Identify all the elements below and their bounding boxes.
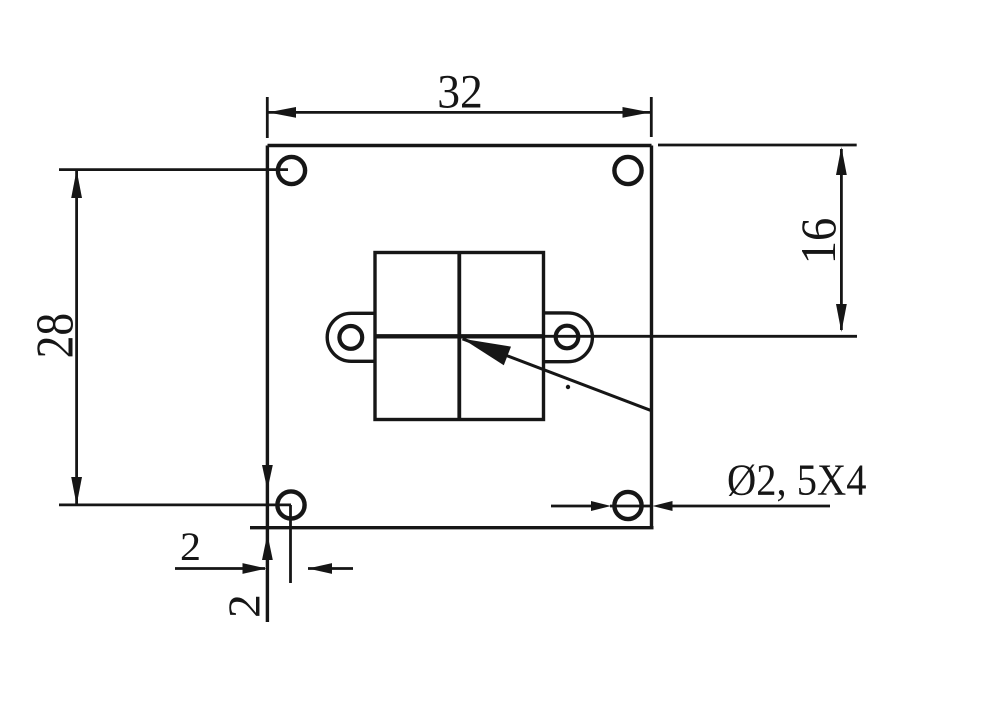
dim 16: dimension line bbox=[840, 149, 843, 330]
svg-text:16: 16 bbox=[791, 218, 846, 264]
hole bottom-right bbox=[614, 492, 641, 519]
leader arrowhead at component center bbox=[463, 339, 512, 366]
left ear hole bbox=[339, 326, 362, 349]
hole bottom-left bbox=[277, 491, 304, 518]
svg-text:28: 28 bbox=[25, 313, 84, 359]
hole top-right bbox=[614, 157, 641, 184]
plate top edge bbox=[268, 144, 652, 147]
arrowhead 28 bottom bbox=[71, 477, 82, 505]
arrowhead hole-callout (points right at hole) bbox=[591, 501, 611, 511]
component square outline bbox=[375, 253, 544, 420]
arrowhead 2v down (points down, above bottom hole axis) bbox=[262, 465, 273, 490]
dim 2 horizontal: right shaft bbox=[308, 567, 353, 570]
dim 32: dimension line bbox=[268, 111, 651, 114]
dim 28: bottom extension line bbox=[59, 503, 291, 506]
plate right edge bbox=[650, 146, 653, 528]
svg-text:2: 2 bbox=[180, 524, 201, 569]
arrowhead 32 right bbox=[623, 107, 651, 118]
dim 32: right extension line bbox=[650, 97, 653, 137]
arrowhead 32 left bbox=[268, 107, 296, 118]
left ear tab outline bbox=[327, 313, 375, 361]
svg-text:32: 32 bbox=[437, 65, 483, 118]
leader line to component center bbox=[463, 339, 652, 411]
hole callout: line through hole bbox=[610, 505, 652, 508]
right ear tab outline bbox=[544, 313, 593, 362]
dim 2 horizontal: left shaft bbox=[175, 567, 265, 570]
svg-text:2: 2 bbox=[219, 594, 270, 618]
arrowhead 2h right (points left) bbox=[308, 563, 332, 574]
hole callout: left shaft bbox=[551, 505, 592, 508]
dim 16: top extension line bbox=[658, 144, 857, 147]
dim 28: dimension line bbox=[75, 171, 78, 505]
plate left edge (extends down as dimension line) bbox=[266, 146, 269, 623]
dim 16: bottom extension line (axis through right ear) bbox=[544, 335, 858, 338]
arrowhead 2h left (points right) bbox=[243, 563, 267, 574]
hole callout: right shaft bbox=[672, 505, 830, 508]
hole top-left bbox=[278, 157, 305, 184]
arrowhead 16 bottom bbox=[836, 304, 847, 332]
component vertical center line bbox=[457, 253, 461, 420]
arrowhead hole-callout (points left at plate edge) bbox=[653, 501, 673, 511]
dim 32: left extension line bbox=[266, 97, 269, 138]
stray dot on leader bbox=[566, 385, 570, 389]
right ear hole bbox=[556, 326, 579, 349]
svg-text:Ø2, 5X4: Ø2, 5X4 bbox=[727, 456, 866, 505]
dim 2 horizontal: hole-center extension line bbox=[289, 505, 292, 583]
arrowhead 28 top bbox=[71, 170, 82, 198]
arrowhead 16 top bbox=[836, 147, 847, 175]
arrowhead 2v up (points up, below plate bottom edge) bbox=[262, 534, 273, 560]
plate bottom edge bbox=[250, 526, 654, 529]
dim 28: top extension line bbox=[59, 168, 288, 171]
component horizontal center line bbox=[375, 334, 544, 338]
